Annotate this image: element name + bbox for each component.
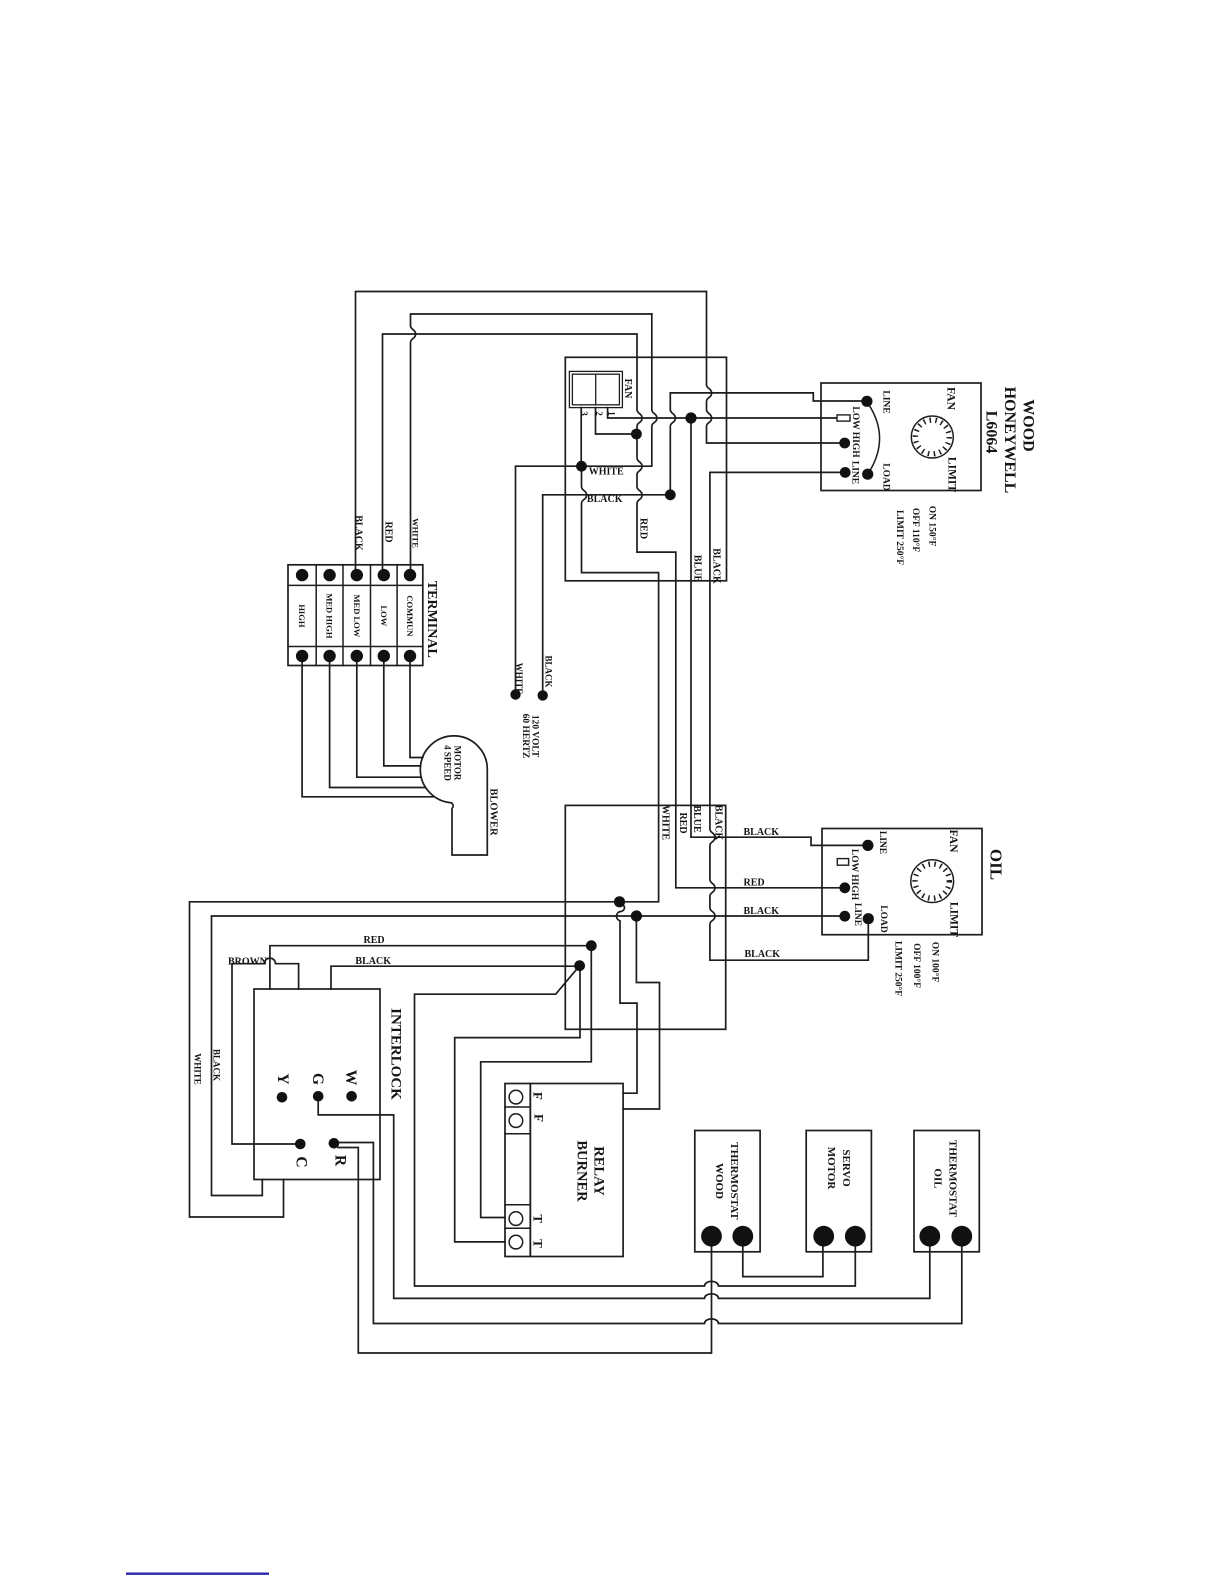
svg-text:LINE: LINE: [877, 831, 887, 854]
wire FAN pin3 stub: [580, 408, 582, 467]
svg-text:1: 1: [607, 411, 617, 416]
OIL control box: [822, 829, 982, 935]
node OIL control LOAD: [863, 913, 874, 924]
svg-text:RED: RED: [638, 518, 649, 539]
svg-text:F: F: [531, 1092, 546, 1100]
svg-text:HONEYWELL: HONEYWELL: [1001, 387, 1018, 494]
wire from junction dot2 down, jog, down to relay burner F: [623, 916, 659, 1109]
node BLUE junction on pin1 line: [685, 412, 696, 423]
svg-text:OFF 110°F: OFF 110°F: [910, 508, 921, 553]
svg-text:BLACK: BLACK: [744, 906, 780, 917]
wire terminal HIGH lead to blower motor: [302, 656, 433, 797]
svg-text:LIMIT 250°F: LIMIT 250°F: [892, 941, 903, 996]
svg-text:MOTOR: MOTOR: [453, 746, 463, 781]
FAN box outer: [569, 371, 622, 407]
svg-text:BLACK: BLACK: [352, 515, 363, 551]
node WHITE junction at pin3: [576, 461, 587, 472]
node OIL control HIGH: [839, 882, 850, 893]
node BLACK corner junction: [665, 489, 676, 500]
wire FAN pin1 to WOOD control LOW-HIGH switch (hops over five verticals): [608, 408, 837, 418]
svg-text:BLUE: BLUE: [691, 555, 702, 583]
svg-text:RED: RED: [364, 935, 385, 946]
svg-text:ON 150°F: ON 150°F: [927, 506, 938, 547]
wire BLACK: diagonal from junction, left, down to bottom bus 1, to servo motor right terminal: [415, 966, 856, 1286]
svg-text:3: 3: [579, 411, 589, 416]
svg-text:MED HIGH: MED HIGH: [325, 593, 335, 638]
svg-text:120 VOLT: 120 VOLT: [530, 715, 540, 758]
svg-text:MED LOW: MED LOW: [352, 595, 362, 638]
svg-text:WHITE: WHITE: [660, 805, 671, 840]
svg-text:RED: RED: [744, 878, 765, 889]
wire from interlock R terminal right, down to bottom bus 3, to oil thermostat right terminal: [338, 1143, 962, 1324]
interlock terminal Y: [277, 1092, 288, 1103]
RELAY BURNER terminal strip: [505, 1084, 530, 1257]
svg-text:C: C: [292, 1156, 309, 1167]
svg-text:OIL: OIL: [932, 1168, 944, 1188]
svg-text:FAN: FAN: [945, 387, 957, 410]
wire WHITE: vertical drop to junction line and 120V supply lead: [516, 314, 657, 695]
node WOOD control LINE2: [840, 467, 851, 478]
svg-text:FAN: FAN: [622, 379, 633, 400]
svg-text:RED: RED: [677, 812, 688, 833]
svg-text:TERMINAL: TERMINAL: [424, 581, 439, 658]
wire BROWN: to interlock C terminal and stub to interlock top (hop over RED): [232, 958, 300, 1144]
thermostat oil contacts: [919, 1226, 940, 1247]
wire terminal LOW lead to blower motor: [384, 656, 421, 766]
node WOOD control LOAD: [862, 469, 873, 480]
svg-text:T: T: [531, 1214, 546, 1223]
wire RED: to interlock top, across, down to relay burner T: [270, 946, 591, 1218]
interlock terminal W: [346, 1091, 357, 1102]
svg-text:SERVO: SERVO: [840, 1149, 852, 1187]
svg-text:LOAD: LOAD: [880, 463, 890, 491]
svg-text:THERMOSTAT: THERMOSTAT: [728, 1142, 740, 1220]
wire BLACK: terminal MED-LOW up, across top, down to WOOD control HIGH terminal: [356, 292, 845, 576]
WOOD Honeywell L6064 control box: [821, 383, 981, 491]
svg-text:BURNER: BURNER: [573, 1140, 589, 1202]
wire from junction dot1 down (s-hop), jog, down to relay burner F: [616, 902, 637, 1093]
svg-text:BLACK: BLACK: [544, 655, 554, 687]
node 120V WHITE lead end: [510, 689, 520, 699]
node WOOD control HIGH: [839, 438, 850, 449]
svg-text:BLACK: BLACK: [744, 827, 780, 838]
svg-text:LINE: LINE: [880, 390, 890, 413]
svg-text:F: F: [532, 1114, 547, 1122]
THERMOSTAT OIL box: [914, 1131, 979, 1252]
svg-text:WOOD: WOOD: [713, 1163, 725, 1199]
wire WHITE: junction down (hop over BLACK), jog right, long drop to lower junction, left and down to interlock bottom: [190, 466, 659, 1217]
wire BLACK: corner junction up and right to WOOD control LINE (hops): [670, 393, 867, 495]
svg-text:LINE: LINE: [852, 903, 862, 926]
svg-text:WHITE: WHITE: [514, 663, 524, 695]
wire FAN pin2 stub to RED junction: [596, 408, 637, 434]
svg-text:RELAY: RELAY: [590, 1146, 606, 1196]
svg-text:WHITE: WHITE: [193, 1053, 203, 1085]
svg-text:BLOWER: BLOWER: [488, 788, 499, 836]
WOOD control dial: [911, 416, 953, 458]
servo motor contacts: [813, 1226, 834, 1247]
wire terminal MED-HIGH lead to blower motor: [330, 656, 426, 788]
RELAY terminal circles F F T T: [509, 1090, 523, 1104]
svg-text:LOW HIGH: LOW HIGH: [850, 406, 860, 458]
svg-text:COMMUN: COMMUN: [405, 595, 415, 637]
svg-text:4 SPEED: 4 SPEED: [443, 745, 453, 781]
wire BLACK: across to corner junction below FAN: [543, 494, 671, 496]
svg-text:BLUE: BLUE: [691, 805, 702, 833]
node junction dot2: [631, 910, 642, 921]
node 120V BLACK lead end: [538, 690, 548, 700]
interlock terminal R: [329, 1138, 340, 1149]
OIL control dial: [911, 860, 954, 903]
svg-text:BLACK: BLACK: [711, 548, 722, 584]
RELAY BURNER box: [530, 1084, 623, 1257]
enclosure rectangle upper: [565, 357, 726, 581]
wire BLACK: 120V supply lead: [542, 495, 544, 696]
node WOOD control LINE: [861, 396, 872, 407]
svg-text:LOAD: LOAD: [878, 905, 888, 933]
wire BLACK: junction down, left, down to relay burner T: [455, 966, 580, 1242]
svg-text:BLACK: BLACK: [355, 956, 391, 967]
svg-text:BLACK: BLACK: [211, 1049, 221, 1081]
svg-text:THERMOSTAT: THERMOSTAT: [946, 1140, 958, 1218]
THERMOSTAT WOOD box: [695, 1131, 760, 1252]
wire BLACK: WOOD control LINE2 left, down (hops over three OIL wires), to OIL control LOAD: [710, 472, 868, 960]
footer rule: [126, 1573, 269, 1575]
node RED junction at pin2: [631, 429, 642, 440]
BLOWER scroll housing outline: [420, 736, 487, 855]
node OIL control LINE2: [839, 911, 850, 922]
svg-text:BROWN: BROWN: [228, 957, 268, 968]
terminal block top contacts: [296, 569, 308, 581]
interlock terminal C: [295, 1139, 306, 1150]
wire RED: terminal LOW up, across, down (hops over WHITE and BLACK lines), jog, down to OIL control HIGH: [383, 334, 845, 888]
svg-text:WHITE: WHITE: [589, 466, 624, 477]
TERMINAL block: [288, 565, 423, 666]
svg-text:60 HERTZ: 60 HERTZ: [520, 714, 530, 759]
wire BLACK: interlock top stub, across to junction: [331, 966, 580, 989]
node RED corner: [586, 940, 597, 951]
wire BLUE: junction down to OIL control LINE: [691, 418, 868, 845]
wire BLACK: long line to OIL control LINE2, left end down to interlock bottom edge: [212, 916, 845, 1196]
svg-text:LIMIT 250°F: LIMIT 250°F: [894, 510, 905, 565]
svg-text:MOTOR: MOTOR: [825, 1147, 837, 1191]
FAN box inner with divider: [572, 374, 619, 405]
svg-text:FAN: FAN: [947, 830, 959, 853]
svg-text:ON 100°F: ON 100°F: [930, 942, 941, 983]
svg-text:2: 2: [594, 411, 604, 416]
WOOD control contact arc LINE to LOAD: [868, 404, 879, 472]
svg-text:LINE: LINE: [850, 461, 860, 484]
svg-text:L6064: L6064: [983, 411, 1000, 454]
svg-text:WOOD: WOOD: [1020, 399, 1037, 451]
svg-text:OFF 100°F: OFF 100°F: [911, 943, 922, 988]
WOOD control LOW-HIGH switch: [837, 415, 850, 421]
svg-text:BLACK: BLACK: [587, 494, 623, 505]
svg-text:G: G: [309, 1073, 326, 1085]
wire WHITE: terminal COMMUN up, across, down right side (hop over RED): [411, 314, 652, 575]
svg-text:INTERLOCK: INTERLOCK: [388, 1008, 404, 1100]
svg-text:T: T: [531, 1239, 546, 1248]
INTERLOCK box: [254, 989, 380, 1180]
wire wood thermostat right to servo motor left: [743, 1236, 823, 1276]
wire from interlock R terminal right, down to bottom bus 4, to wood thermostat left terminal: [338, 1148, 712, 1354]
node junction dot1: [614, 896, 625, 907]
svg-text:OIL: OIL: [987, 849, 1006, 880]
SERVO MOTOR box: [806, 1131, 871, 1252]
svg-text:BLACK: BLACK: [713, 805, 724, 841]
svg-text:LIMIT: LIMIT: [947, 902, 959, 937]
svg-text:WHITE: WHITE: [410, 518, 420, 548]
svg-text:R: R: [331, 1155, 348, 1167]
svg-text:Y: Y: [274, 1073, 291, 1084]
wire terminal COMMUN lead to blower motor: [410, 656, 423, 758]
svg-text:RED: RED: [382, 521, 393, 542]
svg-text:LOW: LOW: [379, 606, 389, 627]
svg-text:BLACK: BLACK: [745, 949, 781, 960]
enclosure rectangle lower: [565, 805, 725, 1029]
node BLACK diagonal junction: [574, 960, 585, 971]
svg-text:W: W: [342, 1070, 359, 1086]
thermostat wood contacts: [701, 1226, 722, 1247]
wire terminal MED-LOW lead to blower motor: [357, 656, 421, 777]
OIL control LOW-HIGH switch: [837, 859, 848, 866]
interlock terminal G: [313, 1091, 324, 1102]
node OIL control LINE: [862, 840, 873, 851]
terminal block bottom contacts: [296, 650, 308, 662]
wire from interlock G terminal down, right, down to bottom bus 2, to oil thermostat left terminal: [318, 1096, 930, 1298]
svg-text:LIMIT: LIMIT: [945, 457, 957, 492]
svg-text:HIGH: HIGH: [297, 604, 307, 628]
svg-text:LOW HIGH: LOW HIGH: [849, 849, 859, 901]
